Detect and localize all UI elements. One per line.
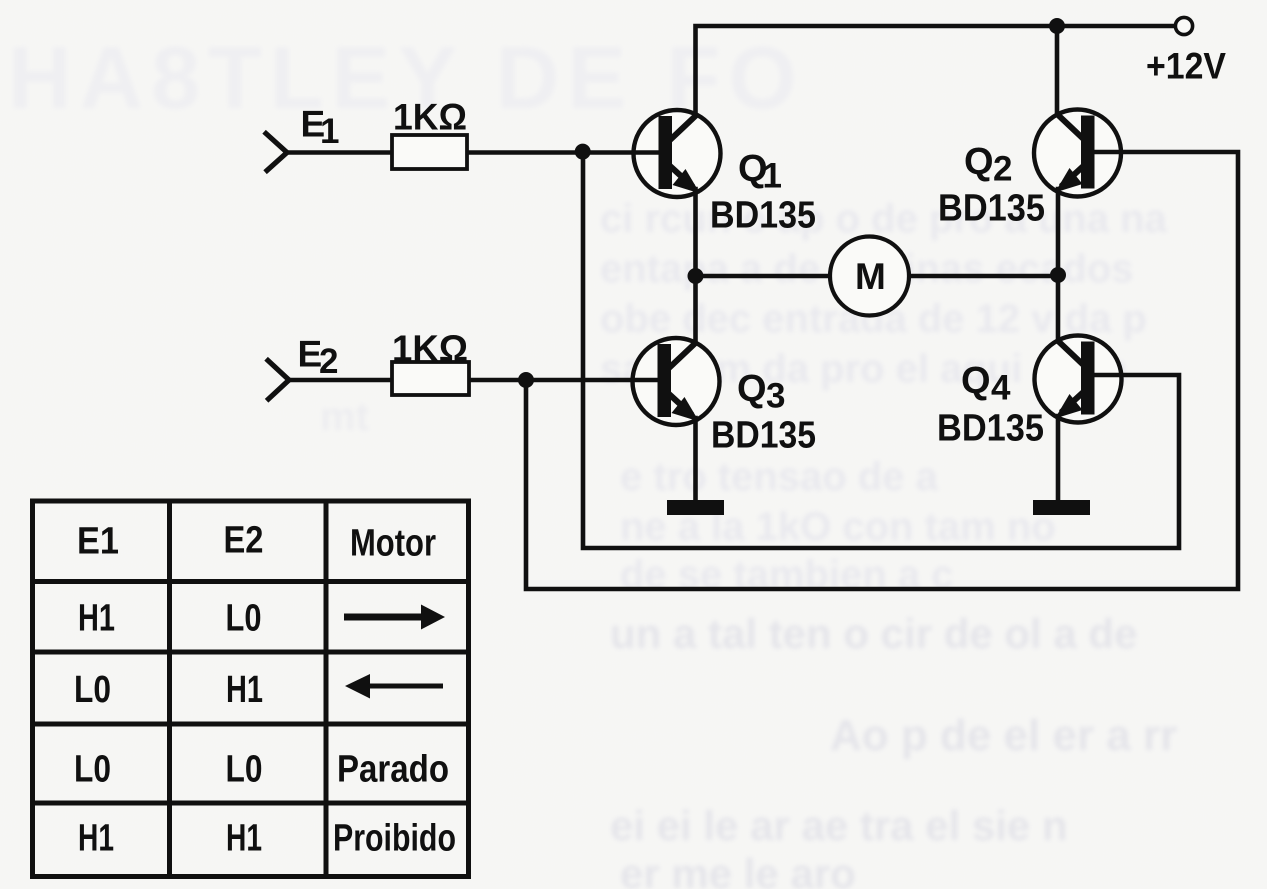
svg-text:er me le aro: er me le aro [620,850,856,889]
svg-text:Ao p de el er a rr: Ao p de el er a rr [830,711,1177,760]
svg-text:BD135: BD135 [711,415,816,457]
svg-text:L0: L0 [74,669,111,711]
svg-text:L0: L0 [226,749,263,791]
svg-text:ci rcun o ap o de pro a una na: ci rcun o ap o de pro a una na [600,197,1168,241]
svg-text:e tro tensao de a: e tro tensao de a [620,455,939,499]
svg-text:E2: E2 [224,520,264,562]
svg-text:mt: mt [320,395,369,439]
svg-text:L0: L0 [74,749,111,791]
svg-text:H1: H1 [226,818,262,860]
svg-text:BD135: BD135 [710,195,816,237]
svg-text:1KΩ: 1KΩ [393,97,467,138]
svg-text:H1: H1 [226,669,263,711]
svg-text:Parado: Parado [337,749,449,791]
svg-text:M: M [855,256,886,297]
svg-text:BD135: BD135 [938,188,1045,230]
svg-text:L0: L0 [226,598,262,640]
svg-text:un a tal ten o cir de ol: un a tal ten o cir de ol a de [610,610,1137,657]
svg-text:Proibido: Proibido [333,818,456,860]
svg-text:ei ei le ar ae tra el si: ei ei le ar ae tra el sie n [610,802,1068,849]
svg-text:H1: H1 [78,598,115,640]
svg-text:+12V: +12V [1146,46,1226,87]
svg-text:E1: E1 [77,521,119,563]
svg-text:BD135: BD135 [937,408,1044,450]
svg-text:Motor: Motor [350,523,436,565]
svg-text:H1: H1 [78,818,114,860]
svg-text:1KΩ: 1KΩ [392,328,468,369]
